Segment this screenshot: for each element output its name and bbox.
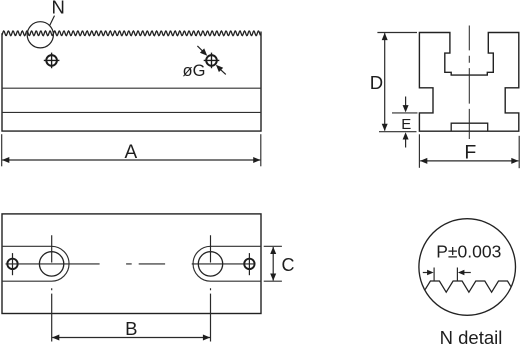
dimension A extension line left: [1, 134, 3, 166]
svg-text:A: A: [124, 142, 137, 163]
pitch tick mark right: [456, 268, 458, 281]
svg-text:D: D: [370, 72, 383, 93]
right view vertical centerline: [468, 26, 470, 140]
hole G crosshair: [204, 53, 220, 69]
counterbore hole left: [39, 252, 63, 276]
N detail view circle: [419, 219, 516, 316]
dimension B line: [52, 337, 210, 339]
right view bottom tab: [451, 123, 488, 131]
hole G circle: [206, 55, 217, 66]
hole right vertical centerline: [210, 235, 212, 290]
dimension D line: [384, 33, 386, 130]
pitch arrow right: [463, 272, 471, 274]
svg-text:N detail: N detail: [440, 327, 503, 347]
front view step line lower: [2, 111, 261, 113]
dimension C line: [272, 247, 274, 281]
dimension A extension line right: [260, 134, 262, 166]
top view rectangle: [2, 214, 261, 314]
bottom extension for D and E: [379, 131, 417, 133]
small hole right: [244, 259, 254, 269]
leader for G lower segment: [219, 68, 226, 75]
svg-text:E: E: [401, 116, 411, 133]
N detail serration profile: [401, 281, 520, 292]
svg-text:øG: øG: [183, 62, 206, 80]
counterbore hole right: [198, 252, 222, 276]
hole H1 circle: [46, 55, 57, 66]
dimension F extension left: [418, 134, 420, 168]
small hole left: [7, 259, 17, 269]
svg-text:N: N: [52, 0, 65, 18]
top view right slot band: [193, 246, 261, 281]
pitch tick mark left: [433, 268, 435, 281]
dimension E step extension: [392, 112, 418, 114]
front view serrated top edge: [2, 31, 261, 36]
svg-text:B: B: [125, 318, 137, 339]
N detail circle on serrations: [27, 22, 53, 48]
dimension F extension right: [518, 136, 520, 168]
hole left vertical centerline: [51, 235, 53, 290]
front view step line upper: [2, 87, 261, 89]
dimension C extension bottom: [264, 280, 282, 282]
top view left slot band: [2, 246, 69, 281]
leader line N: [50, 16, 55, 26]
right view outer profile: [419, 33, 518, 132]
svg-text:P±0.003: P±0.003: [436, 242, 501, 262]
dimension F line: [420, 160, 518, 162]
dimension D top extension: [377, 32, 417, 34]
dimension A line: [2, 159, 260, 161]
dimension E lower arrow: [405, 138, 407, 148]
front view body outline: [2, 32, 261, 132]
horizontal centerline: [6, 263, 255, 265]
dimension B extension left: [51, 294, 53, 342]
svg-text:C: C: [282, 255, 295, 275]
dimension E upper arrow: [405, 97, 407, 107]
small hole right vertical centerline: [248, 253, 250, 275]
pitch arrow left: [423, 272, 428, 274]
leader for G upper segment: [197, 46, 204, 53]
svg-text:F: F: [464, 142, 476, 164]
dimension B extension right: [210, 294, 212, 342]
small hole left vertical centerline: [12, 253, 14, 275]
hole H1 crosshair: [44, 53, 60, 69]
dimension C extension top: [264, 245, 282, 247]
